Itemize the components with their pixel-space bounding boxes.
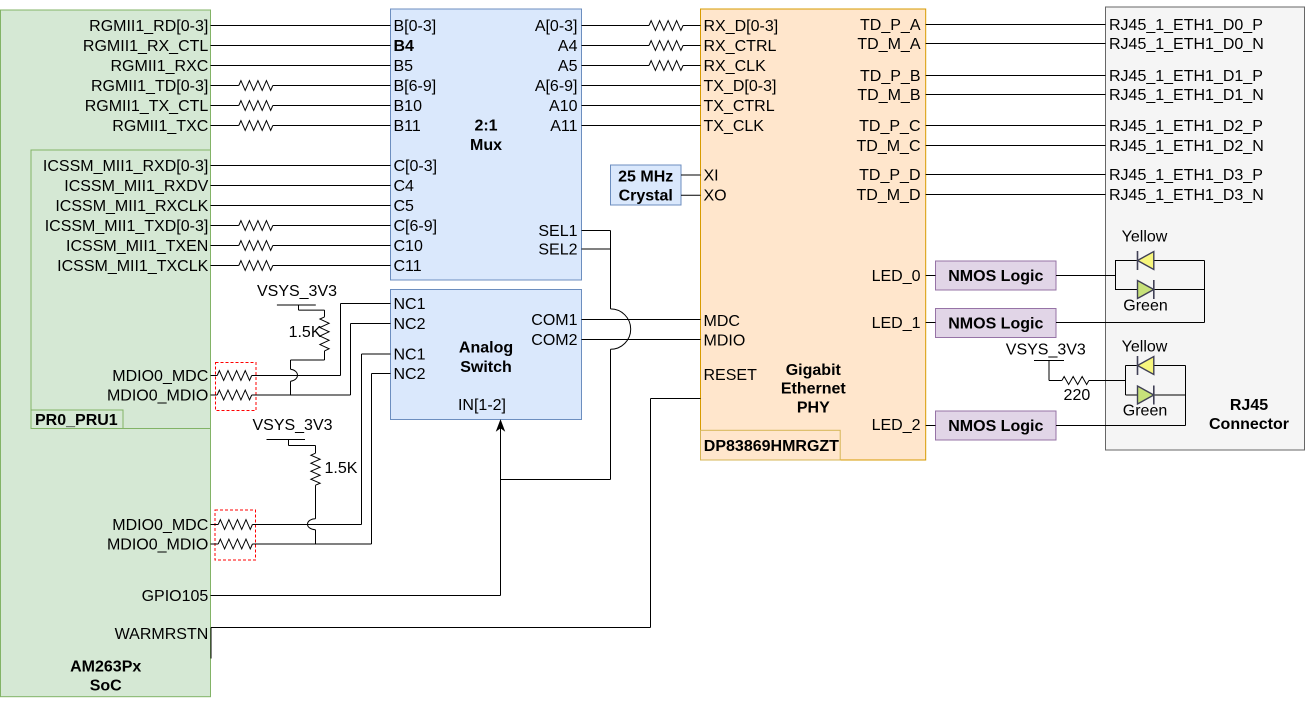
svg-text:B11: B11 [394,118,421,135]
svg-text:B[6-9]: B[6-9] [394,78,437,95]
svg-text:TX_CLK: TX_CLK [704,118,765,135]
svg-text:ICSSM_MII1_TXD[0-3]: ICSSM_MII1_TXD[0-3] [45,218,209,235]
svg-text:A5: A5 [558,58,578,75]
svg-text:ICSSM_MII1_RXDV: ICSSM_MII1_RXDV [64,178,208,195]
svg-text:1.5K: 1.5K [325,460,358,477]
svg-text:C[6-9]: C[6-9] [394,218,438,235]
svg-text:C10: C10 [394,238,423,255]
svg-text:RGMII1_TX_CTL: RGMII1_TX_CTL [85,98,209,115]
svg-text:RX_D[0-3]: RX_D[0-3] [704,18,779,35]
svg-text:TD_M_A: TD_M_A [857,36,920,53]
svg-text:RJ45_1_ETH1_D0_N: RJ45_1_ETH1_D0_N [1109,36,1264,53]
svg-text:AM263Px: AM263Px [70,658,141,675]
svg-text:C11: C11 [394,258,422,275]
svg-text:TD_M_D: TD_M_D [856,187,920,204]
svg-text:MDIO: MDIO [704,333,746,350]
svg-text:RX_CLK: RX_CLK [704,58,767,75]
svg-text:Ethernet: Ethernet [781,381,847,398]
svg-text:MDIO0_MDC: MDIO0_MDC [112,368,208,385]
svg-text:A10: A10 [549,98,578,115]
svg-text:B5: B5 [394,58,414,75]
svg-text:LED_2: LED_2 [872,417,921,434]
svg-text:DP83869HMRGZT: DP83869HMRGZT [704,438,839,455]
svg-text:NMOS Logic: NMOS Logic [948,316,1043,333]
svg-text:RGMII1_TD[0-3]: RGMII1_TD[0-3] [91,78,208,95]
svg-text:WARMRSTN: WARMRSTN [115,626,209,643]
svg-text:B4: B4 [394,38,415,55]
svg-text:TD_P_B: TD_P_B [860,68,920,85]
svg-text:RJ45_1_ETH1_D1_N: RJ45_1_ETH1_D1_N [1109,87,1264,104]
svg-text:TD_P_A: TD_P_A [860,17,921,34]
svg-text:SEL1: SEL1 [538,223,577,240]
svg-text:COM2: COM2 [531,332,577,349]
svg-text:RGMII1_RD[0-3]: RGMII1_RD[0-3] [89,18,208,35]
svg-text:RGMII1_RXC: RGMII1_RXC [111,58,209,75]
svg-text:TD_P_D: TD_P_D [859,167,920,184]
svg-text:COM1: COM1 [531,312,577,329]
svg-text:RGMII1_RX_CTL: RGMII1_RX_CTL [83,38,208,55]
svg-text:25 MHz: 25 MHz [618,169,673,186]
svg-text:NMOS Logic: NMOS Logic [948,418,1043,435]
svg-text:Connector: Connector [1209,416,1289,433]
svg-text:RJ45: RJ45 [1230,397,1268,414]
svg-text:B10: B10 [394,98,423,115]
svg-text:RJ45_1_ETH1_D1_P: RJ45_1_ETH1_D1_P [1109,68,1263,85]
svg-text:A[0-3]: A[0-3] [535,18,578,35]
svg-text:ICSSM_MII1_RXD[0-3]: ICSSM_MII1_RXD[0-3] [43,158,208,175]
svg-text:220: 220 [1064,387,1091,404]
svg-text:A[6-9]: A[6-9] [535,78,578,95]
svg-text:Yellow: Yellow [1122,228,1168,245]
svg-text:TX_D[0-3]: TX_D[0-3] [704,78,777,95]
svg-text:ICSSM_MII1_TXCLK: ICSSM_MII1_TXCLK [57,258,208,275]
svg-text:C[0-3]: C[0-3] [394,158,438,175]
svg-text:RGMII1_TXC: RGMII1_TXC [112,118,208,135]
svg-text:1.5K: 1.5K [289,324,322,341]
svg-text:NC1: NC1 [394,296,426,313]
svg-text:RX_CTRL: RX_CTRL [704,38,777,55]
svg-text:VSYS_3V3: VSYS_3V3 [252,417,332,434]
svg-text:LED_1: LED_1 [872,315,921,332]
svg-text:TX_CTRL: TX_CTRL [704,98,775,115]
svg-text:2:1: 2:1 [474,118,497,135]
svg-text:PHY: PHY [797,399,830,416]
svg-text:RJ45_1_ETH1_D3_N: RJ45_1_ETH1_D3_N [1109,187,1264,204]
svg-text:PR0_PRU1: PR0_PRU1 [35,412,118,429]
svg-text:VSYS_3V3: VSYS_3V3 [1006,341,1086,358]
svg-text:NC2: NC2 [394,316,426,333]
svg-text:SoC: SoC [90,677,122,694]
svg-text:Gigabit: Gigabit [786,362,842,379]
svg-text:Analog: Analog [459,340,513,357]
svg-text:Mux: Mux [470,137,502,154]
svg-text:NMOS Logic: NMOS Logic [948,268,1043,285]
svg-text:TD_P_C: TD_P_C [859,118,920,135]
svg-text:MDIO0_MDIO: MDIO0_MDIO [107,388,208,405]
svg-text:MDC: MDC [704,313,740,330]
svg-text:A11: A11 [550,118,577,135]
svg-text:ICSSM_MII1_TXEN: ICSSM_MII1_TXEN [66,238,208,255]
svg-text:TD_M_B: TD_M_B [857,87,920,104]
svg-text:RJ45_1_ETH1_D2_P: RJ45_1_ETH1_D2_P [1109,118,1263,135]
svg-text:RJ45_1_ETH1_D3_P: RJ45_1_ETH1_D3_P [1109,167,1263,184]
svg-text:C5: C5 [394,198,415,215]
svg-text:Switch: Switch [460,359,512,376]
svg-text:A4: A4 [558,38,578,55]
svg-text:RJ45_1_ETH1_D0_P: RJ45_1_ETH1_D0_P [1109,17,1263,34]
svg-text:XO: XO [704,188,727,205]
svg-text:ICSSM_MII1_RXCLK: ICSSM_MII1_RXCLK [55,198,208,215]
svg-text:C4: C4 [394,178,415,195]
svg-text:NC1: NC1 [394,347,426,364]
svg-text:Crystal: Crystal [619,188,673,205]
svg-text:B[0-3]: B[0-3] [394,18,437,35]
svg-text:MDIO0_MDC: MDIO0_MDC [112,517,208,534]
svg-text:XI: XI [704,168,719,185]
svg-text:MDIO0_MDIO: MDIO0_MDIO [107,537,208,554]
svg-text:TD_M_C: TD_M_C [856,138,920,155]
svg-text:RJ45_1_ETH1_D2_N: RJ45_1_ETH1_D2_N [1109,138,1264,155]
svg-text:Green: Green [1123,403,1167,420]
svg-text:GPIO105: GPIO105 [142,588,209,605]
svg-text:Green: Green [1123,298,1167,315]
svg-text:NC2: NC2 [394,366,426,383]
svg-text:SEL2: SEL2 [538,242,577,259]
svg-text:VSYS_3V3: VSYS_3V3 [257,283,337,300]
svg-text:LED_0: LED_0 [872,268,921,285]
svg-text:RESET: RESET [704,367,758,384]
svg-text:IN[1-2]: IN[1-2] [458,397,506,414]
svg-text:Yellow: Yellow [1122,338,1168,355]
